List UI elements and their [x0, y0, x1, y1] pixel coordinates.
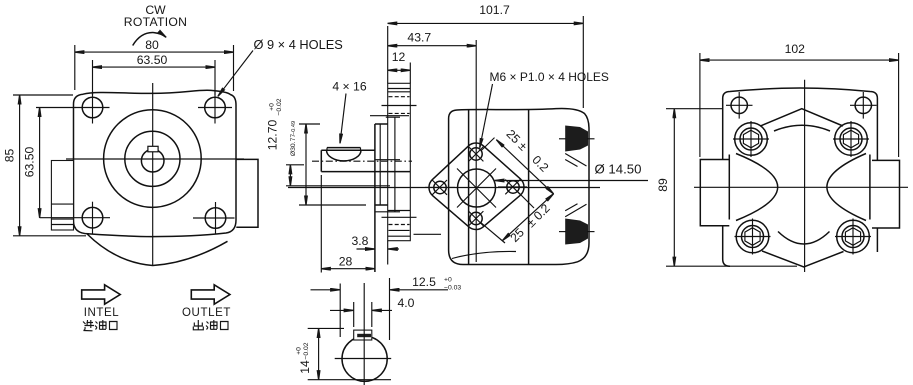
svg-text:14: 14: [298, 360, 312, 374]
screw top-right: [833, 121, 869, 157]
svg-text:+0: +0: [444, 277, 452, 284]
rear 89 ext top: [666, 108, 723, 110]
label M6 holes: [480, 70, 609, 148]
front middle circle: [125, 131, 180, 186]
svg-text:85: 85: [3, 149, 17, 163]
housing bottom dip arc: [778, 232, 830, 245]
body bottom contour line: [452, 251, 516, 258]
housing side left: [728, 155, 730, 220]
screw bottom-left: [735, 219, 771, 255]
svg-text:+0: +0: [296, 347, 303, 355]
housing top peak: [761, 109, 844, 126]
dim 12.70: [266, 98, 391, 186]
center bore circle: [457, 169, 496, 208]
label 4 x 16: [332, 80, 366, 144]
body horizontal centerline: [288, 187, 600, 189]
housing side right: [869, 155, 871, 220]
svg-text:102: 102: [785, 42, 806, 56]
rear flange plate: [723, 88, 878, 266]
chinese jin-you-kou: [83, 320, 117, 331]
svg-text:Ø 14.50: Ø 14.50: [595, 162, 642, 177]
outlet flow arrow: [191, 285, 230, 304]
dim dia 30.77: [290, 121, 366, 205]
svg-text:63.50: 63.50: [137, 53, 168, 67]
port bottom black: [559, 204, 595, 245]
svg-text:80: 80: [145, 38, 159, 52]
CW ROTATION label: [124, 3, 188, 45]
link line flange to body: [414, 233, 442, 235]
svg-text:4 × 16: 4 × 16: [332, 80, 366, 94]
dim 89: [656, 109, 674, 267]
body joint line 1: [468, 110, 470, 265]
rear flange bottom edge + 89 ext: [666, 265, 797, 267]
svg-text:12: 12: [392, 50, 406, 64]
svg-text:Ø30.77: Ø30.77: [290, 134, 297, 157]
svg-text:101.7: 101.7: [479, 3, 510, 17]
svg-text:4.0: 4.0: [398, 296, 415, 310]
bolt hole top-right: [198, 92, 232, 124]
front keyway notch: [148, 146, 158, 152]
screw bottom-right: [835, 219, 871, 255]
label dia 14.50: [495, 162, 648, 181]
dim 43.7: [388, 31, 477, 46]
detail centerlines: [335, 283, 392, 385]
rear port stub left: [700, 160, 729, 226]
svg-text:89: 89: [656, 178, 670, 192]
chinese chu-you-kou: [193, 320, 228, 330]
front horizontal centerline: [66, 158, 244, 160]
svg-text:ROTATION: ROTATION: [124, 15, 188, 29]
svg-text:3.8: 3.8: [352, 234, 369, 248]
rear centerline horizontal: [694, 186, 908, 188]
bolt hole bottom-left: [40, 202, 110, 234]
svg-text:43.7: 43.7: [407, 31, 431, 45]
dim 63.50 horizontal: [93, 53, 216, 95]
svg-text:63.50: 63.50: [23, 147, 37, 178]
svg-text:12.70: 12.70: [266, 120, 280, 151]
OUTLET text: [182, 307, 231, 319]
svg-text:OUTLET: OUTLET: [182, 307, 231, 319]
woodruff keyway 4x16: [327, 148, 362, 161]
pilot boss: [375, 117, 400, 272]
svg-text:28: 28: [339, 254, 353, 268]
front body outline: [74, 90, 237, 236]
INTEL text: [84, 307, 120, 319]
dim 28: [321, 175, 375, 273]
bolt hole bottom-right: [193, 202, 235, 234]
dim 14: [296, 328, 392, 379]
detail circle: [342, 336, 387, 381]
bolt hole top-left: [76, 92, 110, 124]
dim 25 0.2 upper: [481, 127, 554, 208]
dim 85 vertical: [3, 95, 87, 236]
svg-text:−0.49: −0.49: [291, 121, 297, 135]
dim 3.8: [352, 234, 399, 249]
dim 80: [75, 38, 234, 91]
rear centerline vertical: [804, 80, 806, 272]
front big circle: [104, 110, 202, 208]
svg-text:M6 × P1.0 × 4 HOLES: M6 × P1.0 × 4 HOLES: [490, 70, 609, 84]
M6 hole left: [425, 180, 455, 195]
housing waist arc right: [827, 154, 866, 221]
pump body block: [449, 108, 589, 264]
dim 12.5: [311, 275, 462, 340]
rear corner hole right: [850, 92, 877, 119]
dim 12: [388, 50, 411, 83]
dim 102: [700, 42, 899, 157]
dim 63.50 vertical: [23, 108, 77, 218]
mounting flange plate: [370, 83, 417, 264]
front vertical centerline: [152, 83, 154, 266]
housing waist arc left: [736, 154, 778, 221]
inlet stub left: [51, 161, 73, 231]
svg-text:Ø 9 × 4 HOLES: Ø 9 × 4 HOLES: [254, 37, 343, 52]
M6 hole bottom: [469, 211, 484, 226]
front shaft bore circle: [141, 149, 164, 172]
svg-text:−0.03: −0.03: [444, 285, 461, 292]
body joint line 2: [528, 109, 530, 264]
M6 hole right: [498, 180, 527, 195]
dim 25 0.2 lower: [481, 194, 554, 245]
housing bottom peak: [762, 251, 844, 267]
svg-text:+0: +0: [269, 103, 276, 111]
svg-text:12.5: 12.5: [412, 275, 436, 289]
dim 4.0: [330, 296, 415, 327]
inlet flow arrow: [82, 285, 121, 304]
port top black: [559, 126, 595, 167]
rear port stub right: [872, 160, 900, 228]
front bottom bulge: [87, 234, 228, 266]
detail keyway: [354, 330, 372, 340]
rear corner hole left: [726, 92, 753, 119]
shaft: [321, 150, 410, 171]
screw top-left: [733, 121, 769, 157]
M6 hole top: [469, 147, 484, 162]
svg-text:−0.02: −0.02: [276, 98, 283, 115]
outlet stub right: [236, 159, 258, 227]
svg-text:INTEL: INTEL: [84, 307, 120, 319]
svg-text:−0.02: −0.02: [303, 342, 310, 359]
label dia 9 x 4 holes: [218, 37, 343, 96]
dim 101.7: [388, 3, 584, 108]
bolt square diamond: [429, 143, 524, 230]
shaft centerline: [312, 160, 412, 162]
body vertical centerline: [475, 40, 477, 262]
housing top hump arc: [774, 125, 830, 131]
